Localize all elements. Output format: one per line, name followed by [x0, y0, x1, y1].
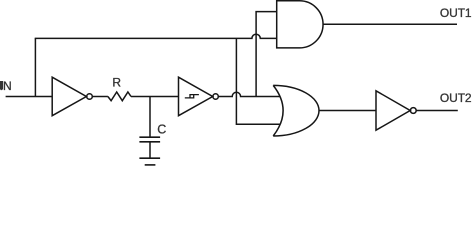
svg-text:OUT1: OUT1 — [440, 6, 472, 20]
resistor R — [108, 92, 131, 101]
wire branch vertical at node A — [34, 38, 36, 96]
wire vertical net C from AND upper input down to U2 output wire — [256, 12, 277, 97]
schmitt inverter U2 triangle — [179, 77, 213, 116]
ground line 1 — [139, 157, 160, 159]
wire U4 output to U5 input — [319, 110, 376, 112]
wire IN input — [6, 96, 53, 98]
schmitt inverter U2 hysteresis symbol — [185, 95, 199, 98]
wire resistor to U2 input — [131, 96, 179, 98]
svg-text:OUT2: OUT2 — [440, 91, 472, 105]
wire U3 output to OUT1 — [323, 23, 457, 25]
capacitor C bottom plate — [139, 141, 160, 143]
wire U1 output to resistor — [92, 96, 108, 98]
inverter U1 triangle — [52, 77, 86, 116]
wire capacitor to ground — [149, 142, 151, 158]
wire U5 output to OUT2 — [416, 110, 458, 112]
capacitor C top plate — [139, 136, 160, 138]
wire top horizontal with hop over vertical net — [35, 34, 277, 38]
schmitt inverter U2 output bubble — [213, 94, 218, 99]
wire vertical net B from top wire down to OR lower input — [236, 38, 280, 124]
or-gate U4 — [273, 85, 319, 136]
node capacitor junction vertical wire — [149, 97, 151, 138]
inverter U1 output bubble — [87, 94, 93, 100]
svg-text:R: R — [112, 76, 121, 90]
inverter U5 triangle — [376, 91, 410, 130]
wire U2 output with hop to OR gate input — [218, 92, 280, 96]
inverter U5 output bubble — [410, 108, 416, 114]
and-gate U3 — [277, 1, 323, 48]
ground line 2 — [145, 164, 156, 166]
svg-text:C: C — [157, 123, 166, 137]
